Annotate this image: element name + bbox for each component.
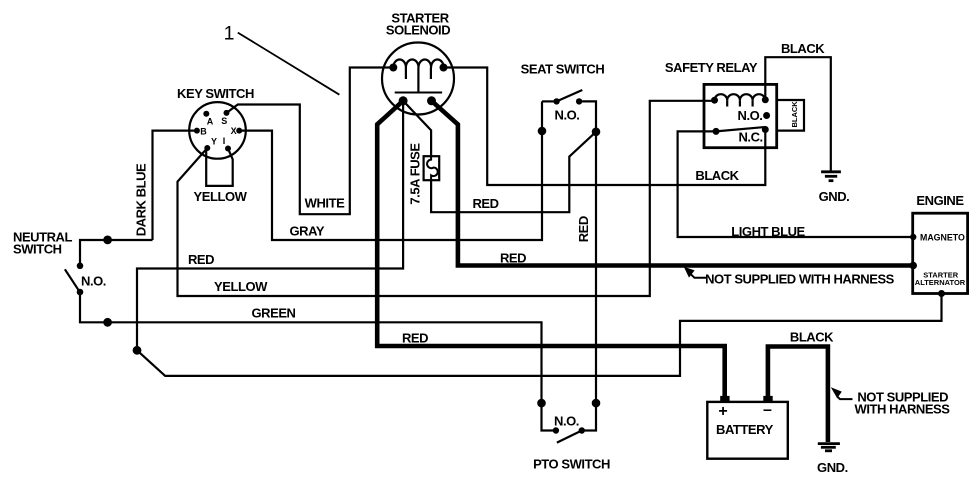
engine starter terminal — [909, 262, 917, 270]
svg-text:RED: RED — [188, 252, 214, 267]
svg-text:RED: RED — [472, 196, 498, 211]
svg-text:GND.: GND. — [817, 460, 848, 475]
svg-text:BLACK: BLACK — [790, 101, 799, 128]
svg-text:SWITCH: SWITCH — [13, 242, 62, 257]
svg-text:B: B — [200, 126, 207, 136]
starter solenoid coil terminal left — [389, 64, 397, 72]
wire red continuation to engine bottom — [137, 294, 942, 376]
wire light blue: relay NC pivot to magneto — [678, 131, 914, 237]
svg-text:–: – — [763, 402, 772, 419]
starter solenoid coil — [393, 60, 443, 68]
neutral switch contact top — [77, 263, 84, 270]
wire green: neutral switch to PTO switch — [80, 292, 542, 403]
svg-text:BLACK: BLACK — [781, 41, 825, 56]
arrow not supplied (red wire) — [690, 274, 706, 278]
junction dot green line — [103, 318, 112, 327]
wire black: solenoid coil right to relay NC — [444, 68, 766, 186]
PTO switch contacts — [553, 427, 559, 433]
svg-text:N.O.: N.O. — [555, 108, 580, 123]
key switch pin X — [236, 128, 242, 134]
seat switch lever top — [557, 90, 583, 101]
svg-text:N.O.: N.O. — [81, 274, 106, 289]
safety relay N.C. contact left — [713, 128, 720, 135]
battery + terminal stub — [720, 396, 729, 402]
ground bottom — [818, 444, 840, 451]
svg-text:YELLOW: YELLOW — [214, 279, 268, 294]
svg-text:SEAT SWITCH: SEAT SWITCH — [521, 62, 605, 77]
battery cable thick red: solenoid left post to battery + — [377, 101, 725, 401]
svg-text:GRAY: GRAY — [290, 224, 325, 239]
svg-text:WHITE: WHITE — [305, 196, 345, 211]
key switch pin Y — [204, 145, 210, 151]
wire to fuse — [403, 101, 431, 156]
svg-text:N.O.: N.O. — [738, 108, 763, 123]
key switch pin A — [203, 111, 209, 117]
svg-text:ENGINE: ENGINE — [916, 193, 964, 208]
black jumper loop right of relay — [777, 100, 804, 131]
wire dark blue: key B to neutral line — [153, 131, 197, 240]
fuse F1 7.5A — [424, 156, 440, 180]
seat switch right leg wire red down to PTO — [579, 101, 596, 403]
junction dot red corner — [133, 346, 142, 355]
svg-text:RED: RED — [402, 331, 428, 346]
key switch pin B — [194, 128, 200, 134]
neutral switch lever — [65, 269, 79, 291]
svg-text:SOLENOID: SOLENOID — [386, 23, 450, 38]
svg-text:S: S — [221, 116, 227, 126]
svg-text:N.O.: N.O. — [554, 414, 579, 429]
svg-text:RED: RED — [500, 251, 526, 266]
starter solenoid post left — [399, 96, 408, 105]
safety relay N.C. lever — [716, 127, 765, 131]
wire white: key S to solenoid coil left — [227, 68, 394, 215]
svg-text:ALTERNATOR: ALTERNATOR — [915, 278, 966, 287]
svg-text:RED: RED — [576, 216, 591, 242]
battery box — [707, 402, 788, 459]
svg-text:KEY SWITCH: KEY SWITCH — [177, 86, 254, 101]
svg-text:BLACK: BLACK — [790, 330, 834, 345]
svg-text:LIGHT BLUE: LIGHT BLUE — [731, 224, 805, 239]
svg-text:1: 1 — [224, 23, 235, 45]
safety relay N.O. contact — [763, 112, 770, 119]
PTO switch terminals — [537, 399, 546, 408]
junction dot neutral line — [103, 236, 112, 245]
svg-text:I: I — [223, 136, 226, 146]
ground top right — [821, 172, 841, 181]
wire black: relay coil to ground — [765, 57, 831, 171]
svg-text:GREEN: GREEN — [252, 306, 296, 321]
wire gray: key X to seat switch left — [239, 101, 542, 240]
starter solenoid coil terminal right — [440, 64, 448, 72]
svg-text:YELLOW: YELLOW — [194, 189, 248, 204]
arrow not supplied (ground cable) — [838, 397, 853, 399]
safety relay coil — [715, 94, 766, 100]
PTO switch legs — [542, 403, 556, 430]
svg-text:N.C.: N.C. — [738, 130, 762, 145]
safety relay coil terminal right — [762, 96, 769, 103]
key switch U2 circle — [189, 102, 246, 159]
seat switch big terminal left — [538, 127, 547, 136]
neutral switch contact bottom — [77, 289, 84, 296]
svg-text:WITH HARNESS: WITH HARNESS — [855, 402, 951, 417]
svg-text:7.5A FUSE: 7.5A FUSE — [408, 143, 423, 205]
pointer line 1 — [238, 33, 340, 95]
safety relay coil terminal left — [711, 97, 718, 104]
svg-text:A: A — [207, 116, 214, 126]
svg-text:SAFETY RELAY: SAFETY RELAY — [665, 60, 758, 75]
battery ground cable thick black — [768, 347, 828, 443]
safety relay N.C. contact right — [762, 126, 769, 133]
svg-text:BATTERY: BATTERY — [716, 422, 774, 437]
starter solenoid circle — [382, 43, 454, 115]
wire yellow: key Y down and right to relay coil — [178, 101, 715, 296]
battery - terminal stub — [763, 396, 772, 402]
svg-text:GND.: GND. — [819, 189, 850, 204]
seat switch big terminal right — [592, 128, 601, 137]
svg-text:DARK BLUE: DARK BLUE — [134, 163, 149, 236]
engine bottom terminal — [938, 290, 945, 297]
svg-text:X: X — [231, 126, 237, 136]
wire red: fuse to seat switch — [431, 132, 596, 212]
yellow jumper key I to Y — [206, 149, 233, 186]
svg-text:Y: Y — [211, 136, 217, 146]
engine magneto terminal — [910, 234, 916, 240]
starter solenoid post right — [427, 96, 436, 105]
svg-text:BLACK: BLACK — [695, 168, 739, 183]
key switch pin I — [225, 146, 231, 152]
PTO switch lever — [557, 431, 582, 443]
svg-text:PTO SWITCH: PTO SWITCH — [533, 456, 610, 471]
safety relay box — [704, 84, 777, 147]
seat switch contact dots top — [553, 98, 559, 104]
engine box — [913, 213, 968, 293]
starter cable thick red: solenoid right post to starter — [432, 101, 914, 266]
seat switch left leg — [542, 100, 557, 102]
svg-text:+: + — [718, 403, 727, 420]
neutral switch wire top — [80, 240, 153, 266]
key switch pin S — [224, 110, 230, 116]
svg-text:MAGNETO: MAGNETO — [920, 233, 965, 243]
starter solenoid bar — [395, 92, 442, 94]
svg-text:NOT SUPPLIED WITH HARNESS: NOT SUPPLIED WITH HARNESS — [705, 272, 895, 287]
wire red: harness red to solenoid left post — [137, 101, 403, 350]
